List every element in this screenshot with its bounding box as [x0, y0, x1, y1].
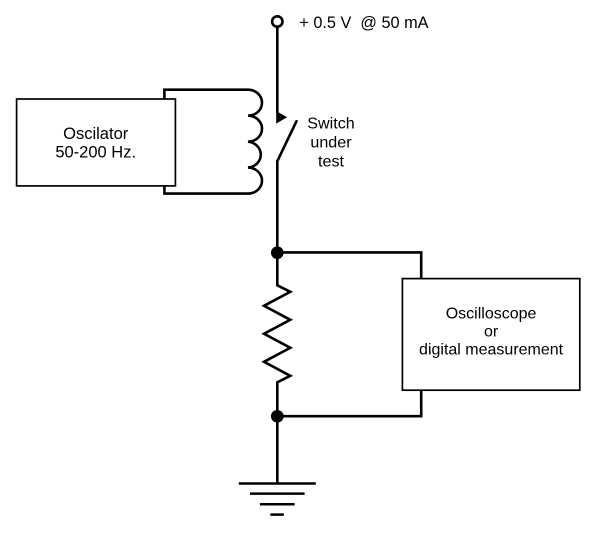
svg-text:50-200 Hz.: 50-200 Hz. [55, 144, 136, 162]
svg-text:+ 0.5 V @ 50 mA: + 0.5 V @ 50 mA [299, 14, 428, 32]
svg-text:under: under [310, 134, 352, 152]
svg-text:test: test [318, 153, 344, 171]
svg-text:or: or [484, 323, 499, 340]
svg-text:Switch: Switch [307, 115, 354, 133]
svg-text:Oscilloscope: Oscilloscope [446, 305, 537, 322]
svg-text:Oscilator: Oscilator [63, 125, 129, 143]
svg-text:digital measurement: digital measurement [419, 341, 564, 358]
